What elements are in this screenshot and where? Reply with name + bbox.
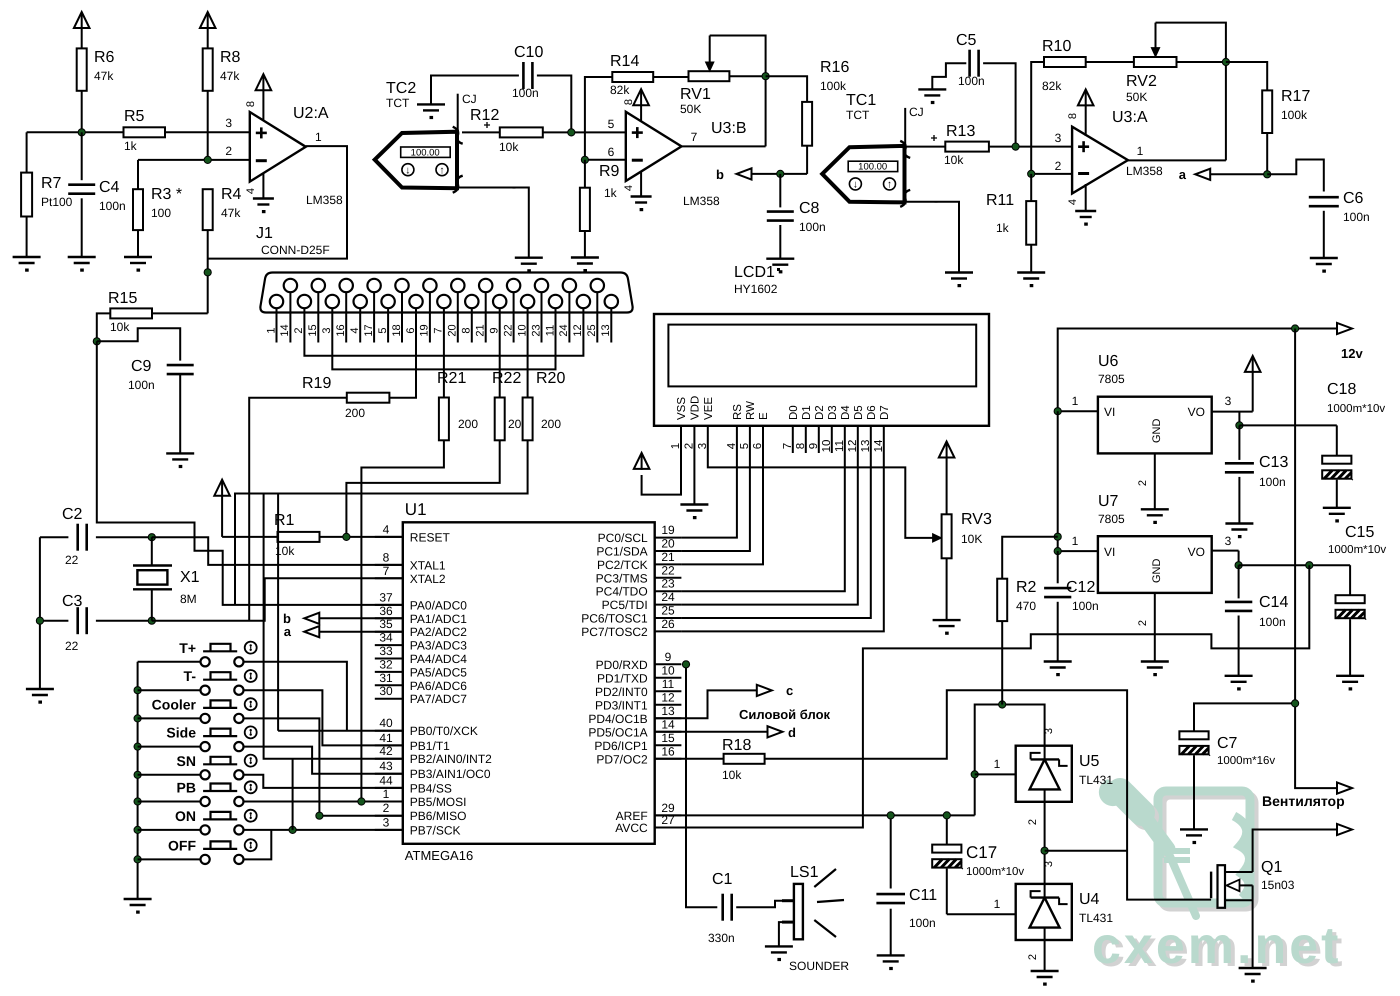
- svg-text:LM358: LM358: [1126, 164, 1163, 178]
- svg-text:CJ: CJ: [462, 92, 477, 106]
- wire PB6 row: [319, 815, 402, 817]
- svg-text:100n: 100n: [99, 199, 126, 213]
- svg-text:15: 15: [661, 731, 675, 745]
- net arrow b out: [737, 168, 752, 179]
- wire DB25 pin9 to R22: [499, 343, 501, 398]
- wire AREF net: [655, 814, 975, 816]
- svg-text:U6: U6: [1098, 353, 1119, 370]
- svg-text:TCT: TCT: [846, 108, 870, 122]
- wire SN to PB4: [244, 775, 403, 788]
- ground under R7: [13, 256, 41, 258]
- wire U3A output: [1128, 159, 1226, 161]
- svg-text:10: 10: [661, 663, 675, 677]
- svg-text:9: 9: [489, 327, 501, 333]
- LS1 sound rays: [814, 869, 836, 887]
- svg-text:R2: R2: [1016, 579, 1037, 596]
- capacitor C3: [40, 620, 69, 622]
- svg-text:PC0/SCL: PC0/SCL: [598, 531, 648, 545]
- wire PD0 to C1: [686, 664, 717, 907]
- resistor R13: [945, 142, 989, 152]
- svg-text:XTAL2: XTAL2: [410, 572, 446, 586]
- svg-text:U4: U4: [1079, 891, 1100, 908]
- ground under R9: [571, 256, 599, 258]
- wire R15 right: [152, 312, 208, 314]
- svg-text:2: 2: [383, 801, 390, 815]
- svg-text:32: 32: [379, 657, 393, 671]
- wire R10 left: [1031, 62, 1044, 174]
- svg-text:16: 16: [661, 744, 675, 758]
- wire a arrow net: [1210, 173, 1267, 175]
- node junction C2 X1: [148, 534, 155, 541]
- svg-text:4: 4: [383, 522, 390, 536]
- wire LCD D1 stub: [805, 426, 807, 453]
- wire LCD VSS to power: [642, 426, 681, 495]
- svg-text:Side: Side: [166, 725, 196, 741]
- svg-text:c: c: [786, 683, 793, 698]
- svg-text:47k: 47k: [94, 69, 114, 83]
- svg-text:CONN-D25F: CONN-D25F: [261, 243, 330, 257]
- svg-text:20: 20: [447, 324, 459, 336]
- svg-text:3: 3: [1043, 728, 1055, 734]
- wire LS1 to ground: [779, 922, 794, 946]
- wire Cooler left: [138, 717, 201, 719]
- svg-text:U2:A: U2:A: [293, 105, 329, 122]
- svg-text:LM358: LM358: [306, 193, 343, 207]
- svg-text:C12: C12: [1066, 579, 1095, 596]
- svg-text:R3 *: R3 *: [151, 186, 182, 203]
- capacitor C14: [1238, 565, 1240, 598]
- op-amp U3:A: [1072, 127, 1128, 194]
- svg-text:C18: C18: [1327, 381, 1356, 398]
- svg-text:Q1: Q1: [1261, 859, 1282, 876]
- svg-text:19: 19: [419, 324, 431, 336]
- switch ON: [201, 825, 210, 834]
- wire to R16: [766, 76, 808, 102]
- wire to C18: [1239, 424, 1336, 426]
- svg-text:VEE: VEE: [703, 397, 715, 420]
- svg-text:D4: D4: [840, 405, 852, 420]
- svg-text:TC1: TC1: [846, 92, 876, 109]
- svg-text:10k: 10k: [722, 768, 742, 782]
- node junction R6 R5 C4: [78, 129, 85, 136]
- ground TC2 minus: [515, 257, 543, 259]
- svg-text:D0: D0: [788, 405, 800, 420]
- node junction C7 12v: [1292, 700, 1299, 707]
- wire DB25 pin6 to R19: [389, 343, 416, 398]
- wire T- left: [138, 689, 201, 691]
- wire b arrow net: [752, 173, 808, 175]
- wire RV2 right: [1177, 61, 1226, 63]
- svg-text:100k: 100k: [820, 79, 847, 93]
- resistor R3: [137, 160, 139, 189]
- svg-text:1k: 1k: [604, 186, 618, 200]
- wire 5V to AVCC: [655, 565, 1310, 827]
- svg-text:R10: R10: [1042, 38, 1071, 55]
- svg-text:10k: 10k: [944, 153, 964, 167]
- svg-text:C17: C17: [966, 843, 997, 862]
- power pin8 U3B: [640, 89, 642, 106]
- svg-text:R4: R4: [221, 186, 242, 203]
- svg-text:13: 13: [661, 704, 675, 718]
- resistor R20: [523, 398, 533, 441]
- svg-text:11: 11: [662, 677, 675, 691]
- wire OFF to ON row: [244, 830, 272, 860]
- node junction PB5 MOSI: [358, 798, 365, 805]
- svg-text:21: 21: [661, 550, 675, 564]
- svg-text:5: 5: [608, 117, 615, 131]
- resistor R4: [203, 189, 213, 230]
- wire DB25 pin7 to R21: [443, 343, 445, 398]
- svg-text:15: 15: [307, 324, 319, 336]
- svg-text:PB1/T1: PB1/T1: [410, 739, 450, 753]
- net arrow fan plus: [1337, 783, 1352, 794]
- resistor R5: [124, 127, 166, 137]
- wire Side left: [138, 746, 201, 748]
- svg-text:↓: ↓: [853, 179, 858, 191]
- capacitor C11: [890, 815, 892, 888]
- wire to C15: [1239, 564, 1351, 566]
- node junction U5 ref: [971, 771, 978, 778]
- svg-text:2: 2: [293, 327, 305, 333]
- svg-text:PC5/TDI: PC5/TDI: [602, 598, 648, 612]
- svg-text:PB7/SCK: PB7/SCK: [410, 823, 461, 837]
- svg-text:PD6/ICP1: PD6/ICP1: [594, 739, 648, 753]
- resistor R2: [997, 579, 1007, 621]
- wire C10 left to ground: [431, 76, 519, 105]
- svg-text:19: 19: [661, 523, 675, 537]
- svg-text:7: 7: [383, 564, 390, 578]
- wire C9 branch: [97, 328, 180, 360]
- svg-text:6: 6: [405, 327, 417, 333]
- wire LCD D2 stub: [818, 426, 820, 453]
- wire U4 pin2 ground: [1044, 940, 1046, 971]
- svg-text:AVCC: AVCC: [615, 821, 648, 835]
- svg-text:C9: C9: [131, 358, 152, 375]
- ground pin4 U3B: [640, 171, 642, 197]
- wire vertical to PB0: [277, 494, 279, 731]
- wire C5 right: [983, 63, 1016, 146]
- resistor R9: [584, 160, 586, 188]
- resistor R15: [110, 308, 152, 318]
- svg-text:100n: 100n: [1343, 210, 1370, 224]
- svg-text:C4: C4: [99, 179, 120, 196]
- svg-text:200: 200: [458, 417, 478, 431]
- svg-text:RW: RW: [745, 401, 757, 420]
- svg-text:3: 3: [321, 327, 333, 333]
- svg-text:1k: 1k: [124, 139, 138, 153]
- ground TC2 C10: [417, 103, 445, 105]
- svg-text:10k: 10k: [110, 320, 130, 334]
- power +5V above R8: [207, 12, 209, 29]
- wire C6 jog: [1267, 160, 1324, 192]
- wire R15 left down: [97, 313, 111, 341]
- svg-text:4: 4: [1067, 199, 1079, 205]
- wire C17 to U4 pin1: [947, 913, 1016, 915]
- svg-text:R8: R8: [220, 49, 241, 66]
- svg-text:VDD: VDD: [689, 396, 701, 420]
- svg-text:22: 22: [661, 563, 675, 577]
- power +5V above RV3: [946, 442, 948, 459]
- wire U3B minus net: [585, 159, 626, 161]
- ground under U4: [1031, 970, 1059, 972]
- wire R19 left long vertical: [249, 398, 347, 621]
- svg-text:9: 9: [665, 650, 672, 664]
- ground under C7: [1180, 828, 1208, 830]
- svg-text:C7: C7: [1217, 735, 1238, 752]
- capacitor C7 electrolytic: [1179, 731, 1208, 739]
- ground under C18: [1323, 507, 1351, 509]
- net arrow c: [757, 685, 772, 696]
- crystal X1: [151, 537, 153, 565]
- wire LCD RW to PC1: [681, 426, 750, 551]
- svg-text:R1: R1: [274, 512, 295, 529]
- power +5V at U6 out: [1252, 356, 1254, 373]
- ground under C6: [1310, 257, 1338, 259]
- svg-text:7: 7: [433, 327, 445, 333]
- svg-text:22: 22: [65, 553, 79, 567]
- svg-text:40: 40: [379, 716, 393, 730]
- wire TC1 plus to R13: [906, 146, 946, 148]
- node junction 5V out: [1306, 562, 1313, 569]
- svg-text:PB2/AIN0/INT2: PB2/AIN0/INT2: [410, 752, 492, 766]
- svg-text:23: 23: [530, 324, 542, 336]
- IC U7 7805 body: [1098, 536, 1212, 593]
- node junction RESET: [343, 533, 350, 540]
- wire SN left: [138, 774, 201, 776]
- svg-text:24: 24: [558, 324, 570, 336]
- resistor R14: [612, 72, 653, 82]
- svg-text:1: 1: [315, 130, 322, 144]
- svg-text:PA5/ADC5: PA5/ADC5: [410, 665, 467, 679]
- op-amp U3:B: [626, 112, 682, 181]
- ground under C14: [1225, 675, 1253, 677]
- ground under C4: [68, 256, 96, 258]
- svg-text:33: 33: [379, 644, 393, 658]
- svg-text:PA4/ADC4: PA4/ADC4: [410, 652, 467, 666]
- svg-text:10k: 10k: [499, 140, 519, 154]
- wire R12 to U3B pin5: [543, 131, 626, 133]
- wire U7 pin3: [1212, 550, 1239, 552]
- node junction PB7 SCK: [289, 826, 296, 833]
- svg-text:PC4/TDO: PC4/TDO: [596, 585, 648, 599]
- svg-text:J1: J1: [256, 225, 273, 242]
- wire ON to PB7: [244, 829, 403, 831]
- ground under button rail: [124, 898, 152, 900]
- svg-text:10K: 10K: [961, 532, 982, 546]
- svg-text:100n: 100n: [958, 74, 985, 88]
- svg-text:17: 17: [363, 324, 375, 336]
- svg-text:SOUNDER: SOUNDER: [789, 959, 849, 973]
- svg-text:100n: 100n: [128, 378, 155, 392]
- wire TC1 minus: [906, 202, 960, 273]
- wire LCD D5 to PC5: [681, 426, 857, 605]
- wire LCD E to PC2: [681, 426, 763, 565]
- svg-text:1000m*10v: 1000m*10v: [966, 866, 1024, 878]
- svg-text:U3:A: U3:A: [1112, 109, 1148, 126]
- IC U1 ATMEGA16 body: [403, 522, 655, 844]
- svg-text:PB0/T0/XCK: PB0/T0/XCK: [410, 724, 478, 738]
- node junction U7 input: [1054, 548, 1061, 555]
- node junction R2 bottom: [999, 701, 1006, 708]
- svg-text:8M: 8M: [180, 592, 197, 606]
- wire 12v rail down: [1295, 329, 1337, 789]
- wire RV1 top loop: [710, 36, 766, 147]
- svg-text:PA2/ADC2: PA2/ADC2: [410, 625, 467, 639]
- svg-text:D3: D3: [827, 405, 839, 420]
- wire LCD VEE to RV3 wiper: [708, 426, 934, 538]
- ground under R11: [1017, 271, 1045, 273]
- power +5V above R6: [81, 12, 83, 29]
- node junction 12v rail: [1292, 325, 1299, 332]
- svg-text:ON: ON: [175, 808, 196, 824]
- wire RV1 right: [729, 75, 765, 77]
- svg-text:C8: C8: [799, 200, 820, 217]
- wire C9net to PA0 staircase: [97, 341, 403, 605]
- net arrow a at PA2: [304, 626, 319, 637]
- svg-text:R9: R9: [599, 163, 620, 180]
- wire LCD D6 to PC6: [681, 426, 870, 618]
- node junction output R15: [204, 269, 211, 276]
- node junction U6 input: [1054, 408, 1061, 415]
- svg-text:1: 1: [1137, 144, 1144, 158]
- ground under C5: [918, 88, 946, 90]
- svg-text:3: 3: [1225, 394, 1232, 408]
- power pin8 U3A: [1085, 89, 1087, 106]
- ground under C13: [1225, 522, 1253, 524]
- thermocouple TC1 probe: [822, 146, 904, 203]
- wire PB2 reroute: [292, 759, 294, 830]
- svg-text:R20: R20: [536, 370, 565, 387]
- svg-text:RS: RS: [732, 404, 744, 420]
- capacitor C5: [968, 50, 971, 77]
- capacitor C15 electrolytic: [1349, 565, 1351, 595]
- resistor R6: [77, 48, 87, 90]
- wire R10 to RV2: [1086, 61, 1134, 63]
- svg-text:VI: VI: [1104, 405, 1115, 419]
- op-amp U2:A: [250, 112, 306, 182]
- wire U3B output: [682, 145, 766, 147]
- svg-text:14: 14: [279, 324, 291, 336]
- svg-text:8: 8: [383, 550, 390, 564]
- net arrow d: [768, 726, 783, 737]
- svg-text:D6: D6: [866, 405, 878, 420]
- node junction PB6: [316, 812, 323, 819]
- svg-text:6: 6: [608, 145, 615, 159]
- capacitor C18 electrolytic: [1336, 425, 1338, 455]
- svg-text:LM358: LM358: [683, 194, 720, 208]
- svg-text:RV2: RV2: [1126, 73, 1157, 90]
- resistor R7: [26, 132, 28, 172]
- svg-text:43: 43: [379, 759, 393, 773]
- svg-text:TL431: TL431: [1079, 773, 1113, 787]
- svg-text:U3:B: U3:B: [711, 120, 747, 137]
- wire DB25 pin10 to R20: [527, 343, 529, 398]
- svg-text:PC1/SDA: PC1/SDA: [596, 545, 647, 559]
- wire X1 bottom to XTAL2: [152, 578, 403, 620]
- svg-text:100k: 100k: [1281, 108, 1308, 122]
- capacitor C17 electrolytic: [946, 815, 948, 844]
- capacitor C8: [779, 174, 781, 208]
- wire LCD D7 to PC7: [681, 426, 883, 632]
- wire U5 pin2 to U4 pin3: [1044, 802, 1046, 884]
- svg-text:C14: C14: [1259, 594, 1288, 611]
- svg-text:44: 44: [379, 773, 393, 787]
- svg-text:C13: C13: [1259, 454, 1288, 471]
- switch Cooler: [201, 714, 210, 723]
- wire R1 to RESET: [320, 536, 403, 538]
- wire PB left: [138, 801, 201, 803]
- svg-text:R19: R19: [302, 375, 331, 392]
- wire R2 down: [1001, 621, 1003, 704]
- svg-text:1: 1: [1072, 394, 1079, 408]
- LCD1 display window: [668, 325, 976, 387]
- svg-text:R6: R6: [94, 49, 115, 66]
- wire T+ to PB0: [244, 662, 347, 731]
- node junction rail C3: [36, 617, 43, 624]
- svg-text:11: 11: [544, 325, 556, 336]
- net arrow b at PA1: [304, 613, 319, 624]
- svg-text:2: 2: [1055, 159, 1062, 173]
- svg-text:PD7/OC2: PD7/OC2: [596, 752, 648, 766]
- svg-text:+: +: [930, 131, 937, 145]
- thermocouple TC2 probe: [375, 132, 457, 189]
- svg-text:Вентилятор: Вентилятор: [1262, 793, 1345, 809]
- svg-text:2: 2: [1027, 819, 1039, 825]
- svg-text:R18: R18: [722, 737, 751, 754]
- svg-text:Силовой блок: Силовой блок: [739, 707, 831, 722]
- wire R14 left: [585, 77, 612, 160]
- svg-text:PA7/ADC7: PA7/ADC7: [410, 692, 467, 706]
- button common rail: [137, 662, 139, 899]
- ground under C15: [1336, 675, 1364, 677]
- wire c net: [655, 690, 757, 718]
- resistor R19: [347, 393, 390, 403]
- svg-text:C11: C11: [909, 887, 937, 904]
- ground TC1 minus: [945, 271, 973, 273]
- wire R14 to RV1: [653, 76, 688, 78]
- svg-text:4: 4: [623, 185, 635, 191]
- ground under LS1: [765, 945, 793, 947]
- svg-text:VO: VO: [1188, 405, 1205, 419]
- wire ON left: [138, 829, 201, 831]
- svg-text:D2: D2: [814, 405, 826, 420]
- svg-text:200: 200: [345, 406, 365, 420]
- svg-text:50K: 50K: [680, 102, 701, 116]
- wire R20 to PA0: [235, 440, 528, 605]
- net arrow a out: [1195, 169, 1210, 180]
- wire d net: [655, 731, 768, 733]
- IC U4 TL431: [1016, 884, 1072, 940]
- svg-text:37: 37: [379, 590, 393, 604]
- svg-text:U5: U5: [1079, 753, 1100, 770]
- svg-text:1: 1: [265, 327, 277, 333]
- IC U5 TL431: [1016, 746, 1072, 802]
- svg-text:8: 8: [1067, 113, 1079, 119]
- node junction R13 C5: [1012, 143, 1019, 150]
- svg-text:10: 10: [516, 324, 528, 336]
- svg-text:8: 8: [461, 327, 473, 333]
- switch Side: [201, 742, 210, 751]
- svg-text:100n: 100n: [909, 916, 936, 930]
- svg-text:1: 1: [994, 897, 1001, 911]
- svg-text:41: 41: [379, 731, 393, 745]
- svg-text:VO: VO: [1188, 545, 1205, 559]
- svg-text:C1: C1: [712, 871, 733, 888]
- svg-text:PD5/OC1A: PD5/OC1A: [588, 725, 647, 739]
- wire LCD D3 stub: [831, 426, 833, 453]
- svg-text:18: 18: [391, 324, 403, 336]
- wire LCD D0 stub: [792, 426, 794, 453]
